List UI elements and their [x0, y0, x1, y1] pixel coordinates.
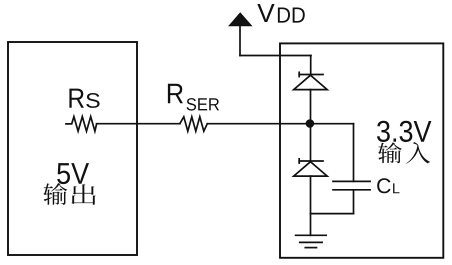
diode D2 cathode tick	[298, 159, 300, 163]
diode D2 cathode bar	[299, 160, 323, 162]
wire Rser to node	[207, 123, 310, 125]
wire VDD horizontal	[240, 55, 311, 57]
label input (Chinese)	[378, 142, 430, 164]
resistor Rser label	[168, 84, 219, 111]
ground symbol	[296, 235, 327, 247]
label 3.3V	[377, 121, 431, 142]
wire CL down	[353, 190, 355, 214]
wire CL to ground branch	[311, 213, 354, 215]
wire D1 to node	[310, 90, 312, 124]
wire D2 to ground	[310, 176, 312, 235]
resistor Rs label	[69, 89, 99, 108]
capacitor CL label	[377, 178, 399, 193]
wire down to CL	[353, 124, 355, 182]
capacitor CL bottom plate	[333, 189, 370, 191]
diode D2 triangle	[294, 162, 328, 176]
wire Rs to Rser	[97, 123, 180, 125]
wire node to cap branch	[310, 123, 354, 125]
capacitor CL top plate	[333, 180, 370, 182]
wire VDD down	[239, 26, 241, 56]
VDD power symbol	[229, 13, 251, 26]
resistor Rs	[66, 117, 97, 132]
diode D1 triangle	[294, 75, 328, 89]
diode D1 cathode tick	[298, 72, 300, 76]
node junction dot	[306, 119, 315, 128]
resistor Rser	[180, 117, 208, 131]
wire down to D1	[310, 56, 312, 75]
5V source block	[8, 42, 137, 255]
diode D1 cathode bar	[299, 74, 323, 76]
VDD label	[257, 4, 304, 23]
wire node to D2	[310, 124, 312, 161]
3.3V input block	[280, 43, 443, 257]
label output (Chinese)	[43, 183, 96, 205]
label 5V	[57, 163, 89, 184]
